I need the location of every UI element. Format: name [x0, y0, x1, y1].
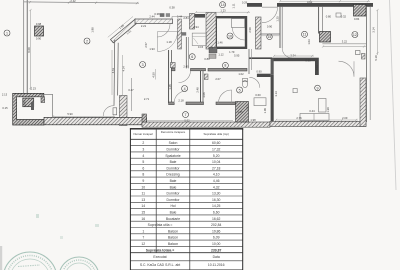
PLAN AREA: [13, 0, 366, 127]
svg-text:0.32: 0.32: [341, 14, 347, 18]
table body text: [140, 141, 225, 267]
node room11: [302, 31, 308, 37]
node room3: [140, 62, 146, 68]
wall segment y14-17 x194-205: [195, 14, 206, 18]
door D1 leaf and arc: [157, 24, 170, 37]
svg-text:Suprafata utila (mp): Suprafata utila (mp): [204, 132, 229, 136]
door D10 arc room11: [282, 48, 292, 58]
node room12: [352, 32, 358, 38]
wall hatch chunk right of room4: [204, 74, 208, 80]
svg-text:2.03: 2.03: [315, 65, 319, 71]
svg-text:1.03: 1.03: [307, 39, 311, 45]
svg-text:1.06: 1.06: [263, 108, 267, 114]
wall bottom salon thick: [44, 117, 147, 124]
wire thin line y16: [172, 16, 190, 18]
svg-text:Dormitor: Dormitor: [167, 148, 181, 152]
svg-text:2: 2: [86, 39, 88, 43]
column hatched top right: [354, 5, 367, 17]
svg-text:1.11: 1.11: [232, 3, 236, 9]
svg-text:12: 12: [141, 242, 145, 246]
extra small texts: [27, 0, 378, 114]
shaft hatched in bay: [23, 98, 34, 107]
svg-text:3.22: 3.22: [342, 39, 348, 43]
svg-text:2.57: 2.57: [144, 42, 148, 48]
dimension labels: [2, 0, 360, 122]
fixture small top: [336, 13, 341, 17]
svg-text:11: 11: [303, 33, 307, 37]
svg-text:5.18: 5.18: [374, 55, 378, 61]
svg-text:0.90: 0.90: [23, 100, 27, 106]
svg-text:0.15: 0.15: [198, 45, 204, 49]
dim line left wall vertical: [30, 10, 32, 90]
svg-text:13,30: 13,30: [212, 192, 221, 196]
dimension tick lines: [29, 0, 378, 121]
svg-text:Suprafata utila =: Suprafata utila =: [148, 223, 173, 227]
svg-text:0.44: 0.44: [309, 109, 315, 113]
svg-text:0.80: 0.80: [326, 14, 332, 18]
svg-text:16: 16: [141, 217, 145, 221]
window bars in wall x181: [181, 32, 186, 35]
table header text: [133, 130, 228, 136]
svg-text:0.38: 0.38: [154, 12, 160, 16]
node room2: [84, 38, 90, 44]
svg-text:1.75: 1.75: [208, 46, 214, 50]
dim line bottom salon: [53, 116, 115, 118]
svg-text:4,10: 4,10: [213, 173, 220, 177]
node room1: [4, 30, 10, 36]
svg-text:10: 10: [228, 34, 232, 38]
wall hatched band salon-hol: [120, 96, 128, 126]
svg-text:2.76: 2.76: [296, 116, 302, 120]
svg-text:0.90: 0.90: [305, 59, 311, 63]
wall left balcony double line: [23, 0, 25, 93]
svg-text:5.95: 5.95: [234, 54, 240, 58]
svg-text:10.11.2016: 10.11.2016: [208, 263, 225, 267]
svg-text:2.07: 2.07: [215, 77, 221, 81]
svg-text:1.39: 1.39: [326, 107, 330, 113]
svg-text:14: 14: [221, 3, 225, 7]
door D6 entrance arc: [262, 6, 278, 8]
svg-text:2.84: 2.84: [183, 16, 189, 20]
node room10: [227, 33, 233, 39]
svg-text:15: 15: [141, 211, 145, 215]
stamp faint specks: [36, 214, 99, 239]
svg-text:5.90: 5.90: [67, 112, 73, 116]
svg-text:6,09: 6,09: [213, 236, 220, 240]
svg-text:0.60: 0.60: [255, 93, 261, 97]
wall bottom right thick: [270, 121, 366, 126]
wall hatched block hol right: [236, 102, 249, 123]
svg-text:0.90: 0.90: [267, 25, 273, 29]
node room14: [220, 2, 226, 8]
svg-text:6: 6: [142, 166, 144, 170]
svg-text:17,32: 17,32: [212, 148, 221, 152]
fixture small rects above band: [160, 13, 165, 17]
wall vertical hatched chunk room3 top-right: [171, 63, 176, 68]
svg-text:0.44: 0.44: [177, 15, 183, 19]
door D5 arc room8: [158, 32, 178, 52]
svg-text:13: 13: [141, 198, 145, 202]
svg-text:Dormitor: Dormitor: [167, 198, 181, 202]
wall room9 top-right vertical: [315, 58, 319, 75]
svg-text:202,84: 202,84: [211, 223, 221, 227]
svg-text:2.94: 2.94: [193, 25, 199, 29]
svg-text:1.46: 1.46: [217, 41, 223, 45]
svg-text:12: 12: [353, 33, 357, 37]
wall right double line: [366, 7, 368, 122]
svg-text:4,32: 4,32: [213, 185, 220, 189]
svg-text:19,86: 19,86: [212, 229, 221, 233]
wall bay bottom-left C-shape: [13, 93, 44, 125]
dim line right side vertical: [377, 10, 379, 55]
svg-text:4: 4: [184, 87, 186, 91]
svg-text:1.93: 1.93: [149, 47, 155, 51]
wall room3 left of hol vertical connector: [142, 114, 147, 122]
tub bath10: [232, 19, 245, 28]
dim line room9 top: [274, 55, 314, 57]
room number circles: [4, 2, 358, 118]
svg-text:2.09: 2.09: [342, 116, 348, 120]
wall chamfer band: [111, 19, 139, 43]
wall bottom middle thick: [142, 122, 270, 127]
svg-text:S.C. KaGa CAD S.R.L. abt: S.C. KaGa CAD S.R.L. abt: [140, 263, 180, 267]
dim line balcony12: [323, 46, 366, 48]
svg-text:16,30: 16,30: [212, 198, 221, 202]
door D11 arc room4 bottom: [174, 91, 186, 103]
door D4 arc hol to room5: [219, 90, 232, 103]
node room5: [237, 87, 243, 93]
wall top entrance left segment: [247, 3, 262, 7]
svg-text:1.26: 1.26: [168, 84, 172, 90]
svg-text:3.06: 3.06: [202, 92, 206, 98]
svg-text:Baie: Baie: [170, 185, 177, 189]
svg-text:Hol: Hol: [170, 204, 175, 208]
dim line room9 bottom: [276, 119, 358, 121]
column C1 salon: [35, 26, 44, 36]
wire bay connector lines: [40, 94, 53, 96]
svg-text:7: 7: [185, 113, 187, 117]
svg-text:6,60: 6,60: [213, 211, 220, 215]
svg-text:1.02: 1.02: [238, 72, 244, 76]
svg-text:Denumire incapere: Denumire incapere: [161, 130, 186, 134]
svg-text:1.98: 1.98: [250, 118, 256, 122]
column hatched balcony12: [320, 32, 331, 43]
wall top right main: [277, 3, 373, 7]
svg-text:Balcon: Balcon: [168, 236, 178, 240]
svg-text:0.38: 0.38: [169, 6, 175, 10]
svg-text:6.08: 6.08: [27, 47, 31, 53]
table column lines: [155, 129, 157, 253]
svg-text:8: 8: [224, 64, 226, 68]
svg-text:Bucatarie: Bucatarie: [166, 217, 180, 221]
svg-text:1.98: 1.98: [91, 27, 95, 33]
STAMPS: [3, 252, 99, 270]
svg-text:4.50: 4.50: [151, 72, 155, 78]
svg-text:3.34: 3.34: [290, 54, 296, 58]
svg-text:5,20: 5,20: [213, 154, 220, 158]
svg-text:0.47: 0.47: [128, 88, 134, 92]
node room4: [182, 86, 188, 92]
wall hatched block x190: [190, 14, 195, 30]
svg-text:1.18: 1.18: [166, 40, 172, 44]
fixture wc: [242, 80, 247, 87]
svg-text:1.03: 1.03: [246, 105, 250, 111]
fixture sink room15: [254, 98, 266, 106]
fixture small marks balcony12 bottom: [356, 51, 366, 60]
svg-text:2.71: 2.71: [144, 97, 150, 101]
svg-text:9: 9: [317, 86, 319, 90]
fixture flue marks right of band: [209, 47, 217, 53]
svg-text:2: 2: [142, 141, 144, 145]
TABLE: [130, 129, 243, 270]
svg-text:2.42: 2.42: [70, 0, 76, 3]
wall entry hall right double: [279, 7, 281, 48]
dim line room3 vertical: [111, 50, 113, 95]
svg-text:9: 9: [142, 179, 144, 183]
svg-text:4,46: 4,46: [213, 179, 220, 183]
node room9: [315, 85, 321, 91]
fixture small square room9: [293, 89, 297, 93]
wall corridor-room9 vertical upper: [271, 58, 274, 75]
svg-text:3.14: 3.14: [372, 27, 376, 33]
svg-text:Executat: Executat: [153, 255, 166, 259]
wall hatched band left of bath10: [206, 13, 216, 50]
wall horizontal room5-corridor: [257, 74, 271, 77]
wall room6 left double: [185, 37, 187, 68]
wall salon right vertical double: [113, 40, 116, 106]
svg-text:4.14: 4.14: [121, 66, 125, 72]
svg-text:10,00: 10,00: [212, 242, 221, 246]
bath10 walls: [216, 16, 247, 18]
svg-text:3: 3: [142, 63, 144, 67]
node room6: [222, 62, 228, 68]
svg-text:5: 5: [239, 88, 241, 92]
wardrobe room8: [192, 33, 206, 45]
svg-text:Suprafata totala =: Suprafata totala =: [146, 248, 175, 252]
svg-text:2.21: 2.21: [141, 24, 147, 28]
door D2 arc hol bottom: [103, 106, 113, 116]
wall right hatched lower band: [360, 78, 366, 126]
dim line hol7: [147, 120, 233, 122]
node room8: [189, 54, 195, 60]
svg-text:60,60: 60,60: [212, 141, 221, 145]
svg-text:16,62: 16,62: [212, 217, 221, 221]
svg-text:Salon: Salon: [169, 141, 178, 145]
wall horizontal mid y73: [171, 68, 175, 70]
svg-text:2.18: 2.18: [178, 98, 184, 102]
node room7: [183, 112, 189, 118]
svg-text:Balcon: Balcon: [168, 242, 178, 246]
svg-text:Numar incaperi: Numar incaperi: [133, 132, 153, 136]
wall room9 left vertical thick: [271, 75, 274, 122]
svg-text:239,87: 239,87: [211, 248, 221, 252]
wall vertical between room4 and room5: [200, 71, 202, 103]
door D8 arc corridor: [249, 77, 259, 88]
svg-text:0.98: 0.98: [36, 22, 42, 26]
node room15: [267, 34, 273, 40]
door D9 arc bath10: [232, 28, 245, 41]
wall corridor top y58: [249, 57, 272, 59]
dim line hol14: [196, 11, 250, 13]
svg-text:Baie: Baie: [170, 211, 177, 215]
svg-text:5: 5: [142, 160, 144, 164]
svg-text:1.79: 1.79: [229, 50, 235, 54]
svg-text:Balcon: Balcon: [168, 229, 178, 233]
svg-text:1.05: 1.05: [237, 110, 243, 114]
page edge faint line right: [390, 0, 397, 190]
svg-text:Spalatorie: Spalatorie: [165, 154, 180, 158]
svg-text:1: 1: [142, 229, 144, 233]
svg-text:0.80: 0.80: [204, 57, 210, 61]
wall vertical between room3 and room4: [168, 50, 170, 103]
dim line top right above wall: [280, 0, 370, 2]
svg-text:0.90: 0.90: [256, 70, 262, 74]
svg-text:6: 6: [191, 55, 193, 59]
wire balcony12 bottom line: [322, 43, 366, 45]
svg-text:11: 11: [142, 192, 146, 196]
wall top thin terrace edge: [24, 2, 139, 3]
svg-text:8: 8: [142, 173, 144, 177]
svg-text:2.58: 2.58: [248, 27, 252, 33]
svg-text:Dressing: Dressing: [166, 173, 179, 177]
svg-text:Dormitor: Dormitor: [167, 166, 181, 170]
svg-text:27,18: 27,18: [212, 166, 221, 170]
svg-text:10: 10: [141, 185, 145, 189]
svg-text:1: 1: [6, 31, 8, 35]
svg-text:2.48: 2.48: [196, 87, 200, 93]
fixture kitchen block room9: [319, 99, 327, 113]
svg-text:0.90: 0.90: [36, 37, 42, 41]
wall room9 top: [272, 58, 315, 62]
table header row line: [130, 138, 242, 140]
scan smudge bottom left: [0, 246, 2, 270]
wall hatched band entry hall left: [256, 17, 262, 49]
wall top band room3: [135, 19, 173, 24]
svg-text:4: 4: [142, 154, 144, 158]
table outer border: [130, 129, 242, 270]
svg-text:1.12: 1.12: [218, 53, 224, 57]
svg-text:2.13: 2.13: [2, 93, 8, 97]
svg-text:0.93: 0.93: [307, 0, 313, 4]
svg-text:7: 7: [142, 236, 144, 240]
svg-text:Baie: Baie: [170, 179, 177, 183]
wall vertical x177 room8: [178, 19, 182, 49]
svg-text:14: 14: [141, 204, 145, 208]
dim ticks top line: [29, 1, 138, 4]
wire thin vertical x131: [131, 78, 133, 111]
svg-text:Data: Data: [213, 255, 220, 259]
wire corridor vertical x249: [248, 49, 250, 74]
stamp circle 1: [3, 252, 57, 270]
svg-text:0.29: 0.29: [242, 0, 248, 4]
wall entry hall bottom thin: [261, 33, 280, 35]
wall horizontal hol top y101: [169, 102, 175, 105]
wire chamfer outer parallel line: [108, 17, 133, 38]
door D3 arc room4: [179, 71, 191, 83]
svg-text:1.25: 1.25: [276, 16, 280, 22]
svg-text:0.84: 0.84: [354, 17, 360, 21]
svg-text:3: 3: [142, 148, 144, 152]
svg-text:0.15: 0.15: [2, 106, 8, 110]
svg-text:2.40: 2.40: [183, 64, 189, 68]
svg-text:3.13: 3.13: [274, 91, 278, 97]
table row lines: [130, 146, 242, 261]
svg-text:15: 15: [268, 35, 272, 39]
svg-text:14,25: 14,25: [212, 204, 221, 208]
svg-text:Baie: Baie: [170, 160, 177, 164]
svg-text:4.61: 4.61: [111, 67, 115, 73]
stamp circle 2: [59, 257, 99, 270]
svg-text:Dormitor: Dormitor: [167, 192, 181, 196]
door D7 arc room9 top right: [339, 61, 355, 76]
wall balcony12 left double: [318, 7, 320, 34]
svg-text:10,04: 10,04: [212, 160, 221, 164]
